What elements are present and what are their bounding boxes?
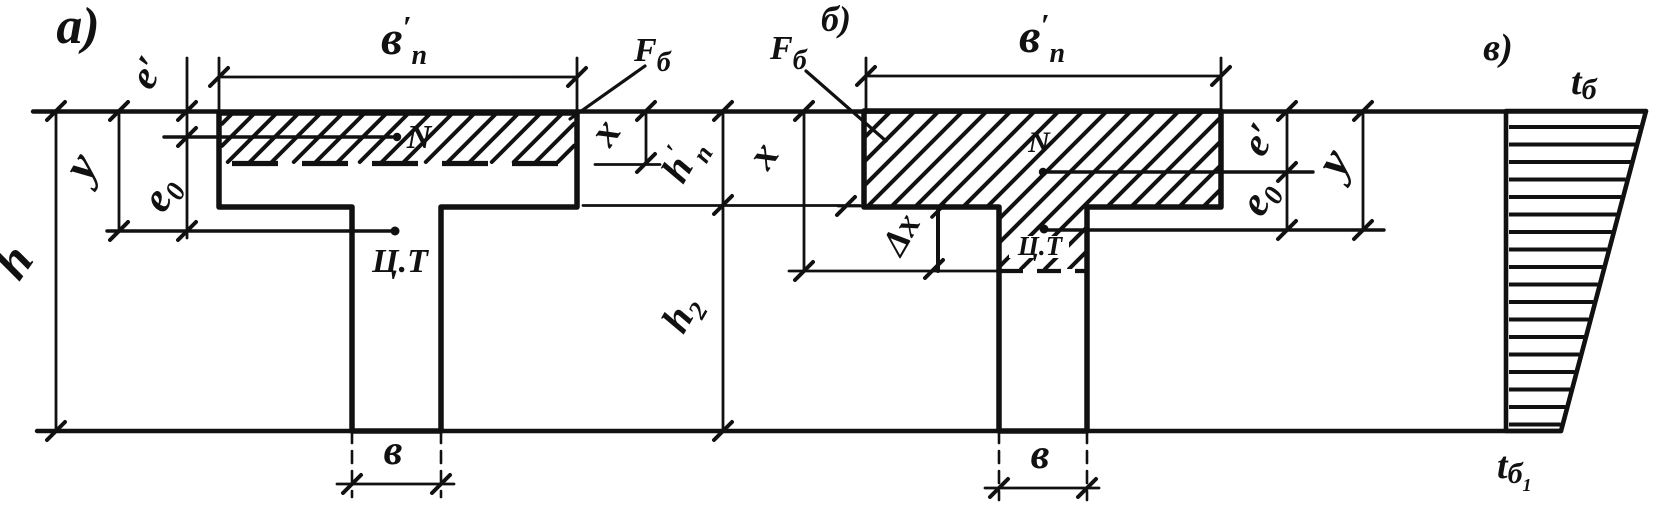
dimension b web width (section a) xyxy=(351,431,354,497)
dashed neutral-axis line (a) at x depth xyxy=(232,161,568,166)
label F6 with leader (section б) xyxy=(806,71,886,141)
svg-text:в: в xyxy=(384,428,403,474)
dashed line at compressed zone bottom (б) xyxy=(999,269,1087,273)
dimension h'p flange thickness xyxy=(722,111,725,431)
svg-text:в: в xyxy=(1031,432,1050,478)
centroid line and point C.T (section a) xyxy=(107,229,391,232)
svg-text:N: N xyxy=(1027,126,1051,159)
flange bottom extension line between sections xyxy=(583,204,860,207)
top reference line (top fibre of sections) xyxy=(33,109,1646,113)
svg-text:N: N xyxy=(406,119,433,156)
dimension y (section б) xyxy=(1362,111,1365,230)
force N line and point (section a) xyxy=(164,135,392,138)
dimension y (top to centroid, section a) xyxy=(118,111,121,231)
dimension delta-x (section б) xyxy=(936,207,940,271)
svg-text:а): а) xyxy=(56,0,99,55)
svg-text:Ц.Т: Ц.Т xyxy=(371,243,429,280)
hatch compressed zone of flange (a) xyxy=(222,115,231,124)
dimension b web width (section б) xyxy=(998,431,1001,500)
T-section outline (a) xyxy=(219,113,577,431)
dimension b'p flange width (section a) xyxy=(219,76,577,79)
svg-text:Ц.Т: Ц.Т xyxy=(1017,231,1064,261)
T-section outline (б) xyxy=(864,111,1221,431)
bottom reference line (bottom fibre) xyxy=(37,429,1561,433)
dimension x neutral axis depth (section б) xyxy=(803,111,806,271)
dimension h (overall height, left) xyxy=(55,111,58,431)
horizontal hatch of stress diagram xyxy=(1509,125,1640,129)
svg-text:б): б) xyxy=(821,0,851,39)
dimension x, neutral axis depth (section a) xyxy=(645,111,648,162)
dimension e' and e0 (section б) xyxy=(1286,111,1289,230)
dimension e' and e0 extension line (section a) xyxy=(186,58,189,238)
dimension b'p flange width (section б) xyxy=(866,75,1221,78)
label F6 with leader (section a) xyxy=(570,66,645,119)
svg-text:в): в) xyxy=(1483,27,1513,69)
centroid line and point C.T (section б) xyxy=(1040,225,1049,234)
stress trapezoid outline xyxy=(1506,111,1646,431)
